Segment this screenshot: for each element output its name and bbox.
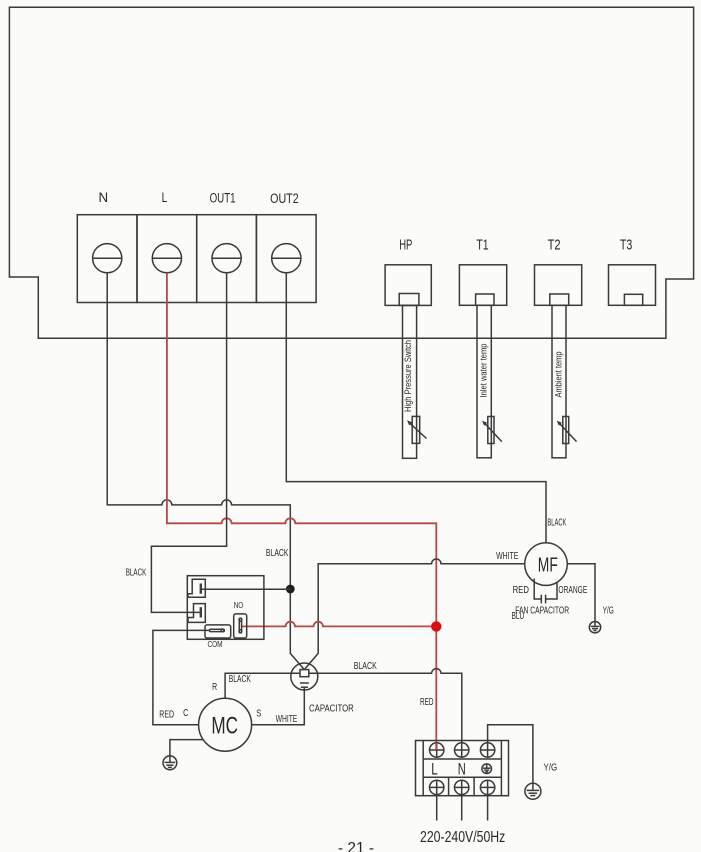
svg-text:RED: RED — [513, 585, 529, 596]
junction node black — [286, 585, 295, 594]
svg-text:N: N — [458, 761, 466, 779]
svg-text:WHITE: WHITE — [276, 714, 298, 725]
svg-text:WHITE: WHITE — [496, 551, 518, 562]
svg-text:NO: NO — [234, 600, 244, 610]
terminal block cell L — [137, 215, 197, 303]
wire capacitor left to compressor R — [225, 673, 300, 698]
connector T3 tab — [624, 294, 642, 305]
svg-text:BLACK: BLACK — [547, 517, 566, 528]
svg-text:BLACK: BLACK — [354, 661, 377, 672]
controller box outline — [9, 7, 693, 338]
power screw N bottom — [455, 780, 469, 794]
svg-text:T3: T3 — [620, 237, 632, 253]
svg-text:OUT2: OUT2 — [270, 191, 299, 206]
svg-text:Y/G: Y/G — [603, 605, 614, 616]
power screw L bottom — [430, 780, 444, 794]
HP switch arrow — [407, 420, 427, 438]
HP probe body — [403, 305, 417, 458]
svg-text:COM: COM — [208, 639, 223, 649]
svg-text:BLACK: BLACK — [266, 548, 289, 559]
T1 probe body — [477, 305, 491, 458]
power screw E top — [480, 743, 494, 757]
T2 probe body — [552, 305, 566, 458]
power screw E bottom — [480, 780, 494, 794]
wire compressor to earth — [170, 740, 203, 756]
svg-text:- 21 -: - 21 - — [338, 840, 374, 852]
wire relay NO to red node: red with hops over two black branches — [242, 622, 437, 627]
earth mark in power block — [482, 764, 492, 774]
svg-text:HP: HP — [399, 237, 412, 253]
wire OUT1 black: down, left, down into relay coil terminal — [151, 273, 226, 613]
compressor run capacitor — [291, 663, 318, 690]
connector T1 box — [459, 265, 506, 306]
relay box — [187, 576, 264, 640]
power terminal block body — [416, 741, 509, 796]
svg-text:R: R — [212, 682, 217, 693]
wire capacitor bottom to compressor S (white) — [252, 687, 305, 725]
connector T3 box — [609, 265, 656, 306]
connector T2 tab — [550, 294, 569, 305]
relay spade terminal 1 — [188, 579, 205, 597]
svg-text:ORANGE: ORANGE — [558, 585, 587, 596]
svg-text:S: S — [256, 709, 261, 720]
svg-text:L: L — [431, 761, 438, 779]
svg-text:N: N — [99, 190, 109, 205]
earth ground MF — [589, 622, 600, 633]
svg-text:RED: RED — [420, 697, 434, 708]
svg-text:220-240V/50Hz: 220-240V/50Hz — [420, 829, 505, 846]
wire N black: down from N, right with hops over L and OUT1, down to junction and capacitor — [107, 273, 304, 670]
svg-text:Inlet water temp: Inlet water temp — [479, 344, 489, 398]
terminal block cell OUT1 — [197, 215, 257, 303]
wire relay COM to compressor C — [153, 630, 210, 724]
T1 sensor element — [488, 417, 494, 444]
svg-text:RED: RED — [159, 710, 174, 721]
power screw L top — [430, 743, 444, 757]
connector HP box — [385, 265, 431, 306]
earth ground MC — [163, 756, 177, 770]
relay COM terminal — [205, 625, 231, 638]
svg-text:High Pressure Switch: High Pressure Switch — [403, 340, 413, 412]
T2 sensor arrow — [557, 421, 577, 442]
connector T1 tab — [476, 294, 494, 305]
wire L red: down from L, right with hops over OUT1 and N-branch, down to red node and bottom block L — [167, 273, 436, 750]
screw terminal L — [152, 244, 181, 273]
screw terminal OUT2 — [272, 244, 301, 273]
wire MF to earth (orange/yg) — [567, 564, 595, 622]
svg-text:OUT1: OUT1 — [210, 190, 236, 205]
svg-text:MF: MF — [538, 553, 558, 576]
fan motor MF — [525, 543, 568, 586]
svg-text:L: L — [162, 190, 168, 205]
terminal block cell N — [77, 215, 137, 303]
wire white from MF: left with hop over red, down to capacitor top — [304, 559, 525, 670]
HP switch element — [412, 416, 420, 443]
fan capacitor plates — [541, 595, 545, 604]
wire red into L screw — [435, 743, 437, 750]
svg-text:Y/G: Y/G — [544, 763, 558, 774]
svg-text:T2: T2 — [548, 237, 561, 253]
svg-text:MC: MC — [211, 712, 238, 739]
terminal block cell OUT2 — [256, 215, 316, 303]
screw terminal OUT1 — [212, 244, 241, 273]
svg-text:BLACK: BLACK — [229, 674, 251, 685]
T2 sensor element — [563, 417, 569, 444]
svg-text:Ambient temp: Ambient temp — [554, 352, 564, 398]
relay NO terminal — [234, 614, 247, 638]
wire earth screw to external ground — [488, 725, 533, 784]
svg-text:T1: T1 — [476, 237, 488, 253]
connector T2 box — [535, 265, 582, 306]
supply wire N — [461, 795, 463, 821]
earth ground power — [525, 783, 541, 799]
svg-text:CAPACITOR: CAPACITOR — [309, 704, 354, 715]
junction node red — [431, 621, 441, 631]
supply wire E — [487, 795, 489, 821]
power screw N top — [455, 743, 469, 757]
svg-text:BLACK: BLACK — [126, 568, 147, 579]
screw terminal N — [93, 244, 122, 273]
fan capacitor leads — [534, 579, 557, 600]
supply wire L — [436, 795, 438, 821]
wire relay upper terminal to junction — [202, 588, 290, 590]
connector HP tab — [399, 294, 419, 306]
wire OUT2 black: down, right, down to fan motor MF — [286, 273, 546, 543]
svg-text:C: C — [183, 708, 188, 719]
T1 sensor arrow — [482, 421, 502, 442]
svg-text:BLU: BLU — [512, 611, 525, 622]
relay spade terminal 2 — [188, 604, 205, 623]
wire capacitor right to bottom block N with hop over red — [309, 669, 462, 743]
compressor motor MC — [199, 698, 252, 751]
